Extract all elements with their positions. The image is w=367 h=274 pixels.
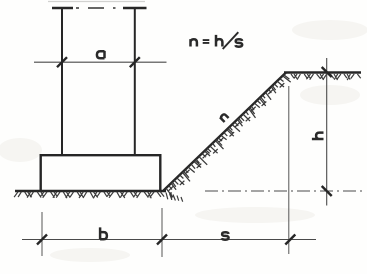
tick b left [37, 235, 47, 245]
dimension line h (vertical) [326, 58, 328, 206]
ground line left [15, 190, 166, 192]
extension line middle (b/s) [161, 208, 163, 257]
wall left top cap [52, 7, 73, 9]
slope hatching [166, 75, 291, 198]
wall left line [61, 8, 63, 156]
tick at left wall [57, 57, 67, 67]
ground hatching top right [291, 74, 361, 80]
tick at top of h [322, 67, 332, 77]
scan edge artifact top [48, 1, 145, 3]
label b [100, 227, 107, 239]
label a [97, 51, 105, 58]
extension line from slope crest down to s dimension [288, 86, 290, 254]
formula: n [191, 39, 197, 46]
slope toe hatching [166, 192, 183, 202]
formula: fraction slash [223, 32, 239, 49]
tick at bottom of h [322, 186, 332, 196]
dash-dot base level line [205, 190, 366, 192]
tick s right [285, 235, 295, 245]
ground line top right [284, 71, 361, 73]
slope line [164, 73, 287, 191]
footing rectangle [41, 155, 161, 190]
formula: h [216, 35, 222, 47]
extension line left (b) [41, 212, 43, 256]
wall right line [134, 8, 136, 156]
tick at right wall [130, 57, 140, 67]
tick b right / s left [157, 235, 167, 245]
break dash-dot line between caps [76, 7, 116, 9]
label s [222, 232, 229, 239]
label h (rotated) [312, 133, 324, 139]
formula: s [235, 39, 242, 46]
ground hatching left [14, 192, 164, 199]
wall right top cap [123, 7, 147, 9]
formula: = [203, 40, 210, 43]
bottom dimension line [22, 239, 316, 241]
label n on slope [220, 113, 229, 122]
dimension line a [34, 61, 167, 63]
